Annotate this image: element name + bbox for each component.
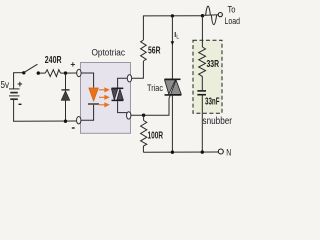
node snubber bottom	[201, 150, 204, 153]
optotriac box U1	[81, 63, 131, 134]
snubber branch: wire from rail	[201, 16, 203, 47]
switch S1	[22, 71, 25, 74]
top rail	[143, 15, 203, 17]
svg-text:Triac: Triac	[147, 83, 163, 94]
node diode top	[64, 71, 67, 74]
N terminal	[218, 149, 223, 154]
svg-text:To: To	[228, 5, 236, 15]
wire 56R to top rail	[142, 16, 144, 40]
main vertical wire with IL arrow	[171, 16, 173, 79]
opto pin 4 (right bottom)	[127, 112, 131, 119]
svg-text:snubber: snubber	[203, 116, 233, 127]
svg-text:33nF: 33nF	[205, 96, 220, 107]
resistor 56R	[141, 40, 147, 61]
wire battery to switch	[13, 72, 23, 74]
svg-text:33R: 33R	[207, 59, 220, 70]
IL current arrow	[171, 41, 175, 45]
capacitor 33nF	[197, 90, 206, 92]
To Load terminal	[218, 13, 222, 17]
svg-text:Load: Load	[225, 16, 241, 26]
resistor 240R	[45, 70, 60, 77]
svg-text:5v: 5v	[1, 79, 10, 91]
battery minus	[19, 103, 22, 105]
svg-text:56R: 56R	[148, 46, 161, 57]
node triac bottom	[171, 151, 174, 154]
LED wiring inside opto	[81, 73, 94, 88]
wire 240R to opto pin	[61, 72, 77, 74]
resistor 100R	[141, 115, 147, 152]
bottom rail	[143, 151, 218, 153]
light arrows	[99, 88, 109, 106]
svg-text:100R: 100R	[148, 131, 164, 142]
diode D1 (reverse protection)	[61, 73, 70, 121]
svg-text:+: +	[70, 59, 75, 69]
bottom wire battery to opto	[13, 120, 76, 122]
snubber box	[193, 40, 222, 113]
opto pin 1 (anode, +)	[77, 69, 81, 76]
wire 33R to cap	[201, 78, 203, 90]
LED D2 (orange)	[89, 88, 98, 101]
resistor 33R	[199, 47, 206, 78]
gate wire	[131, 96, 171, 116]
AC sine symbol	[203, 14, 218, 17]
svg-text:+: +	[17, 79, 22, 89]
triac Q1	[165, 79, 182, 95]
node gate/100R	[142, 114, 145, 117]
wire switch to R 240R	[40, 72, 46, 74]
wire pin6 to 56R	[132, 61, 144, 78]
node snubber top	[201, 14, 204, 17]
triac main wire down	[171, 95, 173, 152]
node triac top	[171, 14, 174, 17]
svg-text:240R: 240R	[45, 55, 62, 66]
opto pin 6 (right top)	[127, 75, 131, 82]
battery B1 5v	[9, 73, 20, 122]
minus label pin2	[72, 127, 75, 129]
wire cap to bottom rail	[201, 96, 203, 153]
svg-text:N: N	[226, 147, 231, 157]
LED cathode wire	[81, 105, 94, 121]
opto internal triac	[112, 78, 128, 112]
svg-text:L: L	[176, 35, 179, 41]
opto pin 2 (cathode, -)	[77, 117, 81, 124]
svg-text:Optotriac: Optotriac	[92, 48, 126, 58]
node diode bottom	[64, 120, 67, 123]
